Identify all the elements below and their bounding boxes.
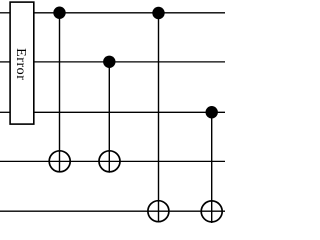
wire q2 (right of Error box to edge) bbox=[34, 111, 225, 113]
CNOT2 vertical wire (control q1 to target q3) bbox=[108, 62, 110, 173]
CNOT3 vertical wire (control q0 to target q4) bbox=[158, 13, 160, 223]
CNOT3 control dot on q0 bbox=[152, 7, 164, 19]
CNOT2 target on q3 bbox=[99, 151, 120, 172]
wire q1 (right of Error box to edge) bbox=[34, 61, 225, 63]
CNOT3 target on q4 bbox=[148, 201, 169, 222]
CNOT4 target on q4 bbox=[201, 201, 222, 222]
CNOT1 target on q3 bbox=[49, 151, 70, 172]
wire q3 (fourth qubit line, full width) bbox=[0, 160, 225, 162]
CNOT4 control dot on q2 bbox=[206, 106, 218, 118]
wire q4 (bottom qubit line, full width) bbox=[0, 210, 225, 212]
wire q0 (top qubit line, left stub into Error box) bbox=[0, 12, 10, 14]
wire q0 (right of Error box to edge) bbox=[34, 12, 225, 14]
wire q1 (left stub into Error box) bbox=[0, 61, 10, 63]
wire q2 (left stub into Error box) bbox=[0, 111, 10, 113]
svg-text:Error: Error bbox=[13, 48, 28, 80]
CNOT1 vertical wire (control q0 to target q3) bbox=[59, 13, 61, 173]
Error gate box U1 bbox=[10, 2, 34, 124]
CNOT2 control dot on q1 bbox=[103, 56, 115, 68]
CNOT4 vertical wire (control q2 to target q4) bbox=[211, 112, 213, 223]
CNOT1 control dot on q0 bbox=[53, 7, 65, 19]
